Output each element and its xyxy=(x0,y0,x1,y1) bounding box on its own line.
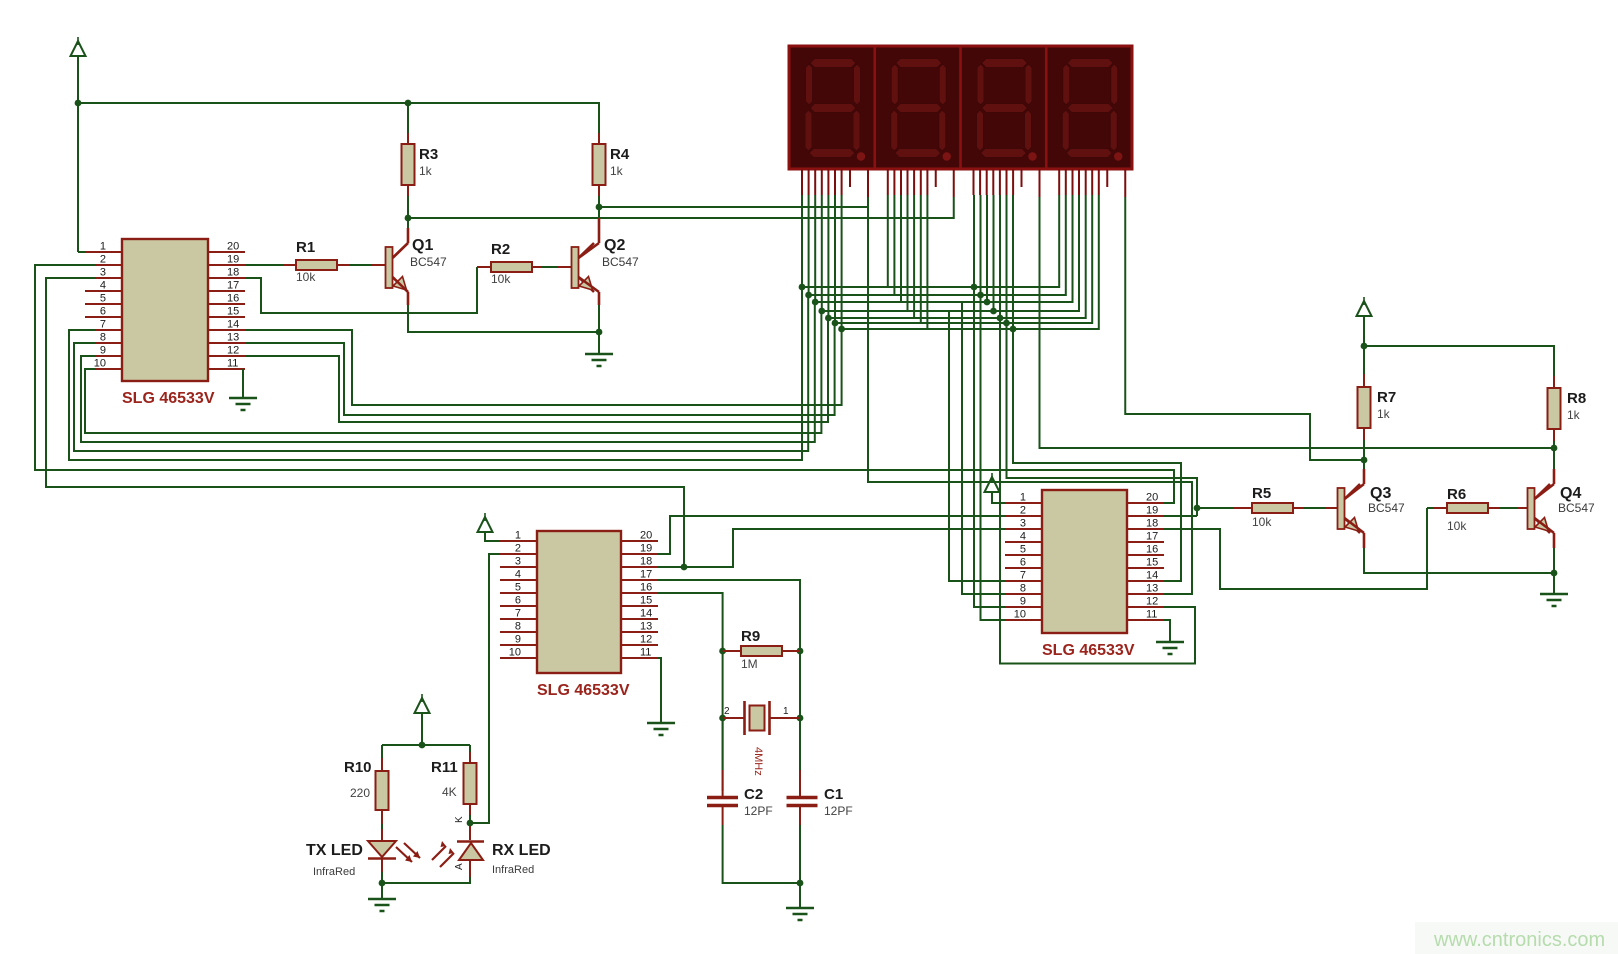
svg-text:2: 2 xyxy=(515,543,521,555)
wire U3 pin11 to ground xyxy=(1164,620,1170,642)
svg-text:7: 7 xyxy=(100,319,106,331)
svg-text:1: 1 xyxy=(1020,492,1026,504)
Q4 emitter lead xyxy=(1535,518,1555,548)
svg-text:RX LED: RX LED xyxy=(492,842,551,859)
svg-text:3: 3 xyxy=(515,556,521,568)
wire digit3 segment d drop xyxy=(993,195,995,311)
node U2 pin18 junction xyxy=(681,564,688,571)
svg-text:5: 5 xyxy=(1020,544,1026,556)
wire Q1 collector node to digit2 common xyxy=(408,197,954,218)
Q1 base lead xyxy=(372,264,386,266)
node R3/Q1 junction xyxy=(405,215,412,222)
svg-text:17: 17 xyxy=(1146,531,1158,543)
svg-text:10: 10 xyxy=(94,358,106,370)
svg-text:14: 14 xyxy=(227,319,239,331)
svg-text:Q4: Q4 xyxy=(1560,485,1581,502)
svg-text:InfraRed: InfraRed xyxy=(492,864,534,876)
wire digit1 segment 3 drop xyxy=(814,195,816,302)
wire Q2 emitter to ground xyxy=(598,305,600,332)
resistor R9 1M xyxy=(741,646,782,656)
svg-text:16: 16 xyxy=(227,293,239,305)
display digit 2 segments xyxy=(896,59,942,68)
wire segment bus row 3 xyxy=(815,195,1072,302)
svg-text:BC547: BC547 xyxy=(602,255,639,269)
display digit 4 pins xyxy=(1059,169,1125,197)
RX LED anode lead xyxy=(469,860,471,877)
wire U2 pin17 to R9 right / crystal / C1 xyxy=(658,580,800,791)
wire digit1 segment 5 drop xyxy=(827,195,829,318)
power VCC arrow (LED circuit) xyxy=(415,698,430,713)
resistor R1 leads xyxy=(283,264,350,266)
svg-text:12PF: 12PF xyxy=(744,804,773,818)
svg-text:SLG 46533V: SLG 46533V xyxy=(1042,642,1135,659)
svg-text:BC547: BC547 xyxy=(410,255,447,269)
wire digit3 segment e drop to U3 pin12 loop xyxy=(1000,195,1195,664)
resistor R6 10k xyxy=(1447,503,1488,513)
node R8/Q4 junction xyxy=(1551,445,1558,452)
wire U2 pin19 to U3 pin2 xyxy=(658,516,1005,554)
display digit 3 pins xyxy=(974,169,1040,197)
svg-text:K: K xyxy=(454,816,465,823)
wire top power rail to R4 xyxy=(78,103,599,133)
wire rail to R11 xyxy=(469,745,471,752)
ground (Q3/Q4 emitters) xyxy=(1540,594,1568,606)
resistor R1 10k xyxy=(296,260,337,270)
wire R3 bottom to node xyxy=(407,196,409,218)
wire U1 pin18 to R2 xyxy=(245,267,477,313)
wire digit1 segment 4 drop xyxy=(821,195,823,311)
svg-text:19: 19 xyxy=(227,254,239,266)
svg-text:16: 16 xyxy=(1146,544,1158,556)
IC U3 SLG 46533V (right) xyxy=(1042,490,1127,633)
svg-text:R8: R8 xyxy=(1567,390,1586,407)
capacitor C2 12PF xyxy=(707,798,738,806)
transistor Q3 BC547 xyxy=(1338,488,1345,529)
wire digit3 segment b drop to U3 pin10 xyxy=(981,195,1006,620)
svg-text:17: 17 xyxy=(227,280,239,292)
wire node to Q1 collector xyxy=(407,218,409,228)
svg-text:8: 8 xyxy=(515,621,521,633)
wire Q4 emitter to ground xyxy=(1553,548,1555,573)
resistor R7 leads xyxy=(1363,374,1365,440)
svg-text:9: 9 xyxy=(515,634,521,646)
svg-text:20: 20 xyxy=(227,241,239,253)
resistor R2 leads xyxy=(477,266,542,268)
wire to R5 xyxy=(1197,507,1233,509)
svg-text:R10: R10 xyxy=(344,759,372,776)
wire node to Q4 collector xyxy=(1553,448,1555,469)
wire segment bus row 1 xyxy=(802,195,1059,287)
wire digit2 segment 3 drop xyxy=(900,195,902,302)
capacitor C1 12PF xyxy=(787,798,818,806)
svg-text:19: 19 xyxy=(1146,505,1158,517)
wire digit2 segment 1 drop xyxy=(887,195,889,287)
svg-text:220: 220 xyxy=(350,786,370,800)
svg-text:14: 14 xyxy=(640,608,652,620)
svg-text:12: 12 xyxy=(640,634,652,646)
svg-text:1: 1 xyxy=(515,530,521,542)
wire bus row3 riser to U3 pin8 xyxy=(962,302,1005,594)
svg-text:3: 3 xyxy=(1020,518,1026,530)
svg-text:SLG 46533V: SLG 46533V xyxy=(537,682,630,699)
ground (LED circuit) xyxy=(368,899,396,911)
wire to ground xyxy=(1553,573,1555,594)
resistor R6 leads xyxy=(1434,507,1500,509)
wire R2 to Q2 base xyxy=(542,266,558,268)
wire digit3 segment f drop to R5/U3 pin19 xyxy=(1007,195,1198,516)
svg-text:12PF: 12PF xyxy=(824,804,853,818)
wire U2 pin16 to R9 left / crystal / C2 xyxy=(658,593,723,791)
wire Q1 emitter to ground rail xyxy=(408,305,599,332)
wire to ground xyxy=(381,883,383,899)
4-digit 7-segment display DS1 xyxy=(789,46,1132,169)
resistor R5 leads xyxy=(1233,507,1304,509)
resistor R10 leads xyxy=(381,758,383,841)
capacitor C2 leads xyxy=(722,770,724,825)
svg-text:18: 18 xyxy=(1146,518,1158,530)
svg-text:15: 15 xyxy=(640,595,652,607)
svg-text:11: 11 xyxy=(227,358,238,370)
wire node to Q2 collector xyxy=(598,207,600,218)
node crystal pin1 junction xyxy=(797,715,804,722)
resistor R4 leads xyxy=(598,133,600,196)
wire digit2 segment 4 drop xyxy=(907,195,909,311)
svg-text:C2: C2 xyxy=(744,786,763,803)
wire R4 bottom to node xyxy=(598,196,600,207)
TX LED cathode lead xyxy=(381,859,383,872)
svg-text:8: 8 xyxy=(1020,583,1026,595)
wire R8 bottom to Q4 node xyxy=(1553,441,1555,448)
svg-text:1: 1 xyxy=(783,706,789,717)
Q1 collector lead xyxy=(393,228,409,258)
svg-text:13: 13 xyxy=(640,621,652,633)
transistor Q4 BC547 xyxy=(1528,488,1535,529)
RX LED cathode lead xyxy=(469,826,471,840)
wire Q3 emitter to ground rail xyxy=(1364,548,1554,573)
svg-text:BC547: BC547 xyxy=(1558,501,1595,515)
transistor Q1 BC547 xyxy=(386,247,393,288)
wire to ground xyxy=(598,332,600,354)
watermark www.cntronics.com xyxy=(1415,922,1618,954)
wire digit4 common to Q3 collector node xyxy=(1125,197,1364,460)
svg-text:18: 18 xyxy=(640,556,652,568)
wire U2 pin2 to RX LED cathode xyxy=(470,554,500,823)
svg-text:R7: R7 xyxy=(1377,389,1396,406)
wire VCC to U1 pin 1 xyxy=(77,56,79,252)
wire C2 bottom to ground rail xyxy=(723,825,800,883)
wire VCC to node R7/R8 xyxy=(1363,315,1365,346)
node Q3/Q4 emitter junction xyxy=(1551,570,1558,577)
svg-text:5: 5 xyxy=(100,293,106,305)
wire digit3 common to Q4 collector node xyxy=(1040,197,1555,448)
svg-text:11: 11 xyxy=(640,647,651,659)
node VCC rail left junction xyxy=(75,100,82,107)
svg-text:A: A xyxy=(454,863,465,870)
wire digit1 common to U3 pin13 xyxy=(868,197,1192,594)
wire U1 pin7 to bus row1 xyxy=(69,287,802,460)
wire digit1 segment 6 drop xyxy=(834,195,836,323)
svg-text:17: 17 xyxy=(640,569,652,581)
transistor Q2 BC547 xyxy=(572,247,579,288)
wire VCC to U3 pin 1 xyxy=(992,491,1005,503)
resistor R3 1k xyxy=(402,144,415,185)
node crystal pin2 junction xyxy=(719,715,726,722)
svg-text:4: 4 xyxy=(515,569,521,581)
wire R5 to Q3 base xyxy=(1304,507,1326,509)
svg-text:6: 6 xyxy=(1020,557,1026,569)
wire node to U3 pin3 xyxy=(684,529,1005,567)
resistor R5 10k xyxy=(1252,503,1293,513)
svg-text:10: 10 xyxy=(1014,609,1026,621)
wire R1 to Q1 base xyxy=(350,264,372,266)
node rail/R3 junction xyxy=(405,100,412,107)
resistor R9 leads xyxy=(723,650,799,652)
svg-text:12: 12 xyxy=(1146,596,1158,608)
ground (Q1/Q2 emitters) xyxy=(585,354,613,366)
svg-text:10k: 10k xyxy=(491,272,511,286)
svg-text:R5: R5 xyxy=(1252,485,1271,502)
wire digit2 segment 6 drop xyxy=(920,195,922,323)
wire to ground xyxy=(799,883,801,908)
Q2 emitter lead xyxy=(579,277,600,305)
svg-text:10k: 10k xyxy=(1447,519,1467,533)
svg-text:Q2: Q2 xyxy=(604,237,625,254)
wire U1 pin3 to U2 pin18 node xyxy=(46,278,684,567)
svg-text:4K: 4K xyxy=(442,785,457,799)
svg-text:19: 19 xyxy=(640,543,652,555)
wire digit2 segment 7 drop xyxy=(926,195,928,329)
svg-text:1k: 1k xyxy=(419,164,433,178)
svg-text:6: 6 xyxy=(100,306,106,318)
ground (U2 pin 11) xyxy=(647,723,675,735)
Q2 collector lead xyxy=(579,218,600,258)
wire VCC to U2 pin 1 xyxy=(485,531,500,541)
wire U1 pin2 to U3 pin20 xyxy=(35,265,1174,503)
wire LED supply rail xyxy=(382,744,470,746)
svg-text:12: 12 xyxy=(227,345,239,357)
svg-text:4: 4 xyxy=(1020,531,1026,543)
svg-text:2: 2 xyxy=(1020,505,1026,517)
resistor R3 leads xyxy=(407,133,409,196)
svg-text:11: 11 xyxy=(1146,609,1157,621)
svg-text:R4: R4 xyxy=(610,146,630,163)
svg-text:10: 10 xyxy=(509,647,521,659)
wire Q2 collector node to digit1 common xyxy=(599,206,868,208)
RX LED arrows xyxy=(432,846,454,867)
wire crystal to C2 xyxy=(722,718,724,770)
display digit 4 segments xyxy=(1067,59,1113,68)
node VCC/R7 junction xyxy=(1361,343,1368,350)
wire U1 pin14 to bus row7 xyxy=(245,329,842,405)
wire digit3 segment a drop to U3 pin9 xyxy=(974,195,1005,607)
wire digit3 segment c drop xyxy=(986,195,988,302)
wire node to Q3 collector xyxy=(1363,460,1365,469)
wire R10 to TX LED xyxy=(381,824,383,829)
wire U1 pin10 to bus row4 xyxy=(85,311,821,433)
wire digit1 segment 1 drop xyxy=(801,195,803,287)
resistor R8 leads xyxy=(1553,376,1555,441)
svg-text:TX LED: TX LED xyxy=(306,842,363,859)
wire U1 pin19 to R1 xyxy=(245,264,283,266)
wire RX LED to ground node xyxy=(382,877,470,883)
ground (U3 pin 11) xyxy=(1156,642,1184,654)
wire rail to R3 top xyxy=(407,103,409,133)
wire digit1 segment 7 drop xyxy=(841,195,843,329)
svg-text:10k: 10k xyxy=(1252,515,1272,529)
IC U1 SLG 46533V (top-left) xyxy=(122,239,208,381)
svg-text:18: 18 xyxy=(227,267,239,279)
resistor R11 4K xyxy=(464,763,477,804)
svg-text:Q3: Q3 xyxy=(1370,485,1391,502)
resistor R7 1k xyxy=(1358,387,1371,428)
svg-text:8: 8 xyxy=(100,332,106,344)
wire R11 to node xyxy=(469,815,471,823)
svg-text:BC547: BC547 xyxy=(1368,501,1405,515)
wire U1 pin8 to bus row2 xyxy=(74,295,808,451)
display digit 1 pins xyxy=(802,169,868,197)
svg-text:6: 6 xyxy=(515,595,521,607)
Q3 emitter lead xyxy=(1345,518,1365,548)
wire segment bus row 7 xyxy=(842,195,1099,329)
svg-text:20: 20 xyxy=(1146,492,1158,504)
Q4 collector lead xyxy=(1535,469,1555,499)
wire U1 pin12 to bus row5 xyxy=(245,318,828,422)
wire R6 to Q4 base xyxy=(1500,507,1517,509)
svg-text:R1: R1 xyxy=(296,239,315,256)
svg-text:9: 9 xyxy=(100,345,106,357)
wire crystal to C1 xyxy=(799,718,801,770)
IC U2 SLG 46533V (middle) xyxy=(537,531,621,673)
wire segment bus row 4 xyxy=(822,195,1079,311)
crystal leads xyxy=(723,717,800,719)
svg-text:C1: C1 xyxy=(824,786,843,803)
wire to U1 pin1 stub xyxy=(78,251,85,253)
svg-text:www.cntronics.com: www.cntronics.com xyxy=(1433,929,1605,951)
crystal X1 4MHz xyxy=(745,701,770,735)
power VCC arrow (U3) xyxy=(985,477,1000,492)
node R7/Q3 junction xyxy=(1361,457,1368,464)
power VCC arrow (right) xyxy=(1357,301,1372,316)
capacitor C1 leads xyxy=(799,770,801,825)
wire C1 bottom to ground rail xyxy=(799,825,801,883)
svg-text:4MHz: 4MHz xyxy=(752,747,764,776)
svg-text:2: 2 xyxy=(100,254,106,266)
TX LED arrows xyxy=(396,843,420,862)
wire digit2 segment 5 drop xyxy=(913,195,915,318)
svg-text:3: 3 xyxy=(100,267,106,279)
Q2 base lead xyxy=(558,266,572,268)
node R9 right junction xyxy=(797,648,804,655)
svg-text:2: 2 xyxy=(724,706,730,717)
svg-text:16: 16 xyxy=(640,582,652,594)
svg-text:15: 15 xyxy=(1146,557,1158,569)
svg-text:R9: R9 xyxy=(741,628,760,645)
svg-text:20: 20 xyxy=(640,530,652,542)
svg-text:7: 7 xyxy=(515,608,521,620)
wire digit2 segment 2 drop xyxy=(893,195,895,295)
wire segment bus row 2 xyxy=(809,195,1066,295)
wire TX LED to ground node xyxy=(381,872,383,883)
svg-text:R3: R3 xyxy=(419,146,438,163)
display digit 2 pins xyxy=(888,169,954,197)
node TX/RX ground junction xyxy=(379,880,386,887)
wire bus row4 riser to U3 pin7 xyxy=(949,311,1005,581)
RX LED diode D2 xyxy=(457,840,484,843)
svg-text:7: 7 xyxy=(1020,570,1026,582)
wire segment bus row 5 xyxy=(828,195,1085,318)
node emitter ground junction xyxy=(596,329,603,336)
ground (C1/C2) xyxy=(786,908,814,920)
Q4 base lead xyxy=(1517,507,1528,509)
resistor R2 10k xyxy=(491,262,532,272)
wire VCC to LED rail xyxy=(421,712,423,745)
power VCC arrow (U2) xyxy=(478,517,493,532)
svg-text:4: 4 xyxy=(100,280,106,292)
svg-text:R2: R2 xyxy=(491,241,510,258)
node RX LED cathode junction xyxy=(467,820,474,827)
resistor R10 220 xyxy=(376,771,389,810)
svg-text:9: 9 xyxy=(1020,596,1026,608)
svg-text:13: 13 xyxy=(1146,583,1158,595)
wire U2 pin18 stub link xyxy=(658,566,684,568)
resistor R8 1k xyxy=(1548,388,1561,429)
svg-text:R6: R6 xyxy=(1447,486,1466,503)
svg-text:10k: 10k xyxy=(296,270,316,284)
svg-text:Q1: Q1 xyxy=(412,237,433,254)
resistor R11 leads xyxy=(469,752,471,815)
svg-text:1k: 1k xyxy=(610,164,624,178)
wire digit1 segment 2 drop xyxy=(808,195,810,295)
node C1/C2 ground junction xyxy=(797,880,804,887)
Q3 base lead xyxy=(1326,507,1338,509)
wire U2 pin11 to ground xyxy=(658,658,661,723)
svg-text:1: 1 xyxy=(100,241,106,253)
TX LED diode D1 xyxy=(368,841,396,857)
wire to R7 top xyxy=(1363,346,1365,374)
svg-text:R11: R11 xyxy=(431,759,458,776)
wire VCC rail to R8 xyxy=(1364,346,1554,376)
wire U3 pin18 to R6 xyxy=(1164,508,1434,589)
Q1 emitter lead xyxy=(393,277,409,305)
wire U1 pin9 to bus row3 xyxy=(81,302,815,442)
display digit 3 segments xyxy=(982,59,1028,68)
node R9 left junction xyxy=(719,648,726,655)
svg-text:1k: 1k xyxy=(1377,407,1391,421)
node VCC LED rail junction xyxy=(419,742,426,749)
svg-text:InfraRed: InfraRed xyxy=(313,866,355,878)
wire R7 bottom to Q3 node xyxy=(1363,440,1365,460)
svg-text:14: 14 xyxy=(1146,570,1158,582)
svg-text:13: 13 xyxy=(227,332,239,344)
ground (U1 pin 11) xyxy=(229,398,257,410)
wire digit3 segment g drop to U3 pin14 xyxy=(1013,195,1181,581)
wire U1 pin13 to bus row6 xyxy=(245,323,835,415)
resistor R4 1k xyxy=(593,144,606,185)
wire segment bus row 6 xyxy=(835,195,1092,323)
wire rail to R10 xyxy=(381,745,383,758)
svg-text:SLG 46533V: SLG 46533V xyxy=(122,390,215,407)
node R4/Q2 junction xyxy=(596,204,603,211)
wire U1 pin11 to ground xyxy=(242,369,244,398)
power VCC arrow (top-left) xyxy=(71,41,86,56)
svg-text:15: 15 xyxy=(227,306,239,318)
svg-text:5: 5 xyxy=(515,582,521,594)
display digit 1 segments xyxy=(810,59,856,68)
Q3 collector lead xyxy=(1345,469,1365,499)
svg-text:1M: 1M xyxy=(741,657,758,671)
svg-text:1k: 1k xyxy=(1567,408,1581,422)
